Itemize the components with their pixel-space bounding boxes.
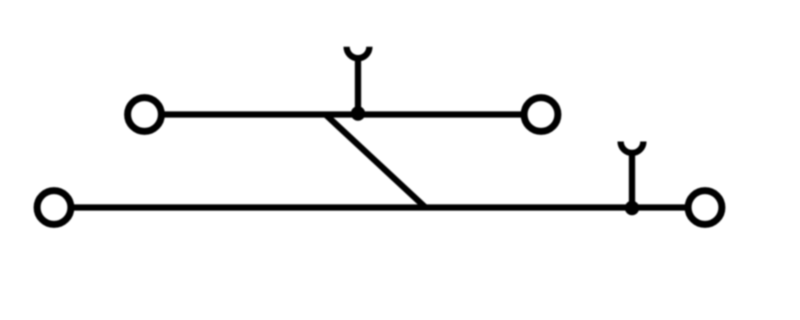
bridge tap symbol bottom (stem) [629,151,635,208]
terminal circle top-right [524,98,558,132]
terminal circle bottom-right [688,191,722,225]
junction dot top [351,106,365,120]
bridge tap symbol top (stem) [355,57,361,115]
junction dot bottom [625,201,639,215]
bridge tap symbol bottom (arc) [621,142,644,153]
wire top rail [145,111,542,117]
wire diagonal cross-connection [326,115,426,208]
bridge tap symbol top (arc) [347,47,370,58]
wire bottom rail [54,204,705,210]
terminal circle bottom-left [37,191,71,225]
terminal circle top-left [128,98,162,132]
